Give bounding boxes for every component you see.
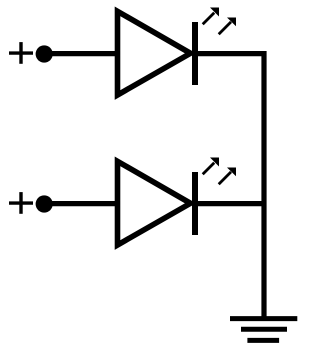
ground bbox=[230, 319, 297, 341]
+ terminal (top supply, positive) bbox=[9, 42, 33, 64]
wire: bottom cathode wire bbox=[195, 201, 266, 206]
node: bottom anode terminal dot bbox=[36, 195, 53, 212]
LED D1 (top) bbox=[118, 11, 196, 95]
+ terminal (bottom supply, positive) bbox=[9, 192, 33, 214]
node: top anode terminal dot bbox=[36, 45, 53, 62]
wire: top cathode wire bbox=[195, 51, 266, 56]
wire: bottom anode wire bbox=[44, 201, 118, 206]
LED D2 light-emission arrows bbox=[203, 158, 236, 185]
wire: top anode wire bbox=[44, 51, 118, 56]
LED D1 light-emission arrows bbox=[203, 8, 236, 35]
LED D2 (bottom) bbox=[118, 161, 196, 245]
wire: shared cathode bus (right vertical) bbox=[261, 51, 266, 319]
